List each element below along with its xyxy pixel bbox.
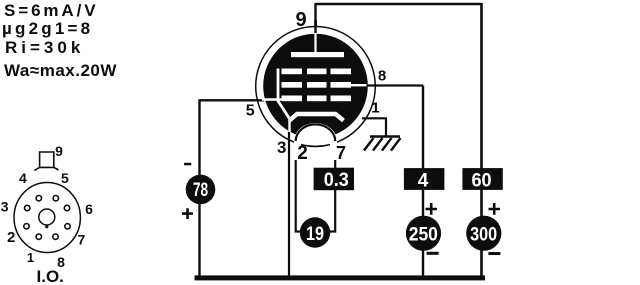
plus sign at 250: [426, 203, 438, 215]
svg-text:60: 60: [471, 169, 491, 191]
meter box 0.3: [314, 168, 354, 191]
grid g2 row dashes: [282, 82, 352, 88]
meter disc 250: [406, 216, 441, 251]
meter disc 300: [466, 216, 501, 251]
meter disc 78: [186, 175, 216, 205]
socket outline circle: [14, 183, 80, 253]
svg-text:µg2g1=8: µg2g1=8: [2, 19, 93, 38]
svg-text:5: 5: [246, 103, 255, 120]
wire: pin 8 screen wire: [364, 84, 423, 86]
svg-text:Wa≈max.20W: Wa≈max.20W: [4, 61, 117, 80]
tube envelope outline: [256, 27, 376, 147]
grid g3 row dashes: [282, 69, 352, 75]
wire: pin 1 lead to ground: [362, 118, 386, 136]
grid left connector white: [278, 69, 290, 120]
heater white cutout: [294, 123, 337, 160]
svg-text:300: 300: [470, 223, 497, 245]
socket center hole: [39, 209, 55, 225]
svg-text:250: 250: [409, 223, 438, 245]
minus sign at 250: [427, 252, 439, 255]
cathode lead white: [288, 119, 290, 132]
pin 5 white entry line: [262, 98, 282, 100]
wire: pin 5 grid wire: [200, 99, 265, 101]
svg-text:3: 3: [277, 138, 286, 157]
socket pin hole 7: [65, 224, 70, 229]
plus sign at 78: [182, 208, 193, 219]
svg-text:3: 3: [1, 199, 9, 215]
svg-text:9: 9: [55, 143, 63, 159]
socket key notch: [45, 225, 48, 229]
svg-text:4: 4: [418, 170, 429, 191]
socket pin hole 8: [53, 234, 58, 239]
svg-text:2: 2: [7, 229, 15, 246]
svg-text:S=6mA/V: S=6mA/V: [4, 1, 98, 20]
wire: heater pin 2 vertical: [296, 137, 302, 232]
svg-text:5: 5: [61, 170, 69, 186]
svg-text:78: 78: [193, 179, 208, 201]
plus sign at 300: [489, 203, 501, 215]
svg-text:4: 4: [19, 170, 27, 186]
socket pin hole 4: [36, 196, 41, 201]
pin 8 white exit line: [351, 84, 367, 86]
svg-text:1: 1: [27, 250, 34, 265]
socket top cap symbol: [34, 152, 58, 170]
meter box 60: [462, 168, 502, 190]
wire: bottom bus: [195, 275, 486, 280]
wire: grid branch vertical: [198, 99, 200, 277]
socket pin hole 6: [64, 205, 69, 210]
cathode: [290, 114, 344, 121]
anode bar: [291, 52, 344, 57]
minus sign at 78: [184, 163, 191, 166]
wire: top anode wire: [316, 3, 482, 6]
anode lead thickened spot: [314, 20, 317, 26]
svg-text:7: 7: [78, 232, 86, 248]
socket pin hole 1: [36, 234, 41, 239]
meter box 4: [404, 168, 445, 190]
ground symbol: [364, 137, 401, 151]
svg-text:19: 19: [306, 223, 324, 245]
svg-text:8: 8: [378, 68, 386, 85]
wire: right vertical (anode branch): [480, 3, 483, 277]
heater filament arc: [296, 124, 336, 141]
socket pin hole 3: [25, 205, 30, 210]
minus sign at 300: [488, 252, 500, 255]
grid g1 row dashes: [282, 96, 352, 102]
wire: screen branch vertical: [422, 86, 424, 278]
wire: cathode pin 3 vertical: [288, 130, 290, 277]
svg-text:7: 7: [336, 143, 346, 163]
wire: anode lead above tube: [314, 3, 316, 35]
svg-text:6: 6: [85, 201, 93, 217]
anode lead inside tube: [314, 33, 316, 52]
socket pin hole 5: [53, 196, 58, 201]
meter disc 19: [300, 217, 330, 247]
tube envelope outline redrawn over cutout: [301, 145, 330, 147]
svg-text:1: 1: [371, 100, 379, 117]
svg-text:2: 2: [297, 143, 308, 164]
wire: heater pin 7 vertical: [329, 140, 335, 232]
tube envelope black fill: [263, 34, 368, 139]
svg-text:Ri=30k: Ri=30k: [5, 38, 84, 57]
socket pin hole 2: [24, 224, 29, 229]
svg-text:9: 9: [295, 9, 306, 31]
svg-text:I.O.: I.O.: [37, 267, 64, 285]
svg-text:0.3: 0.3: [324, 169, 349, 191]
